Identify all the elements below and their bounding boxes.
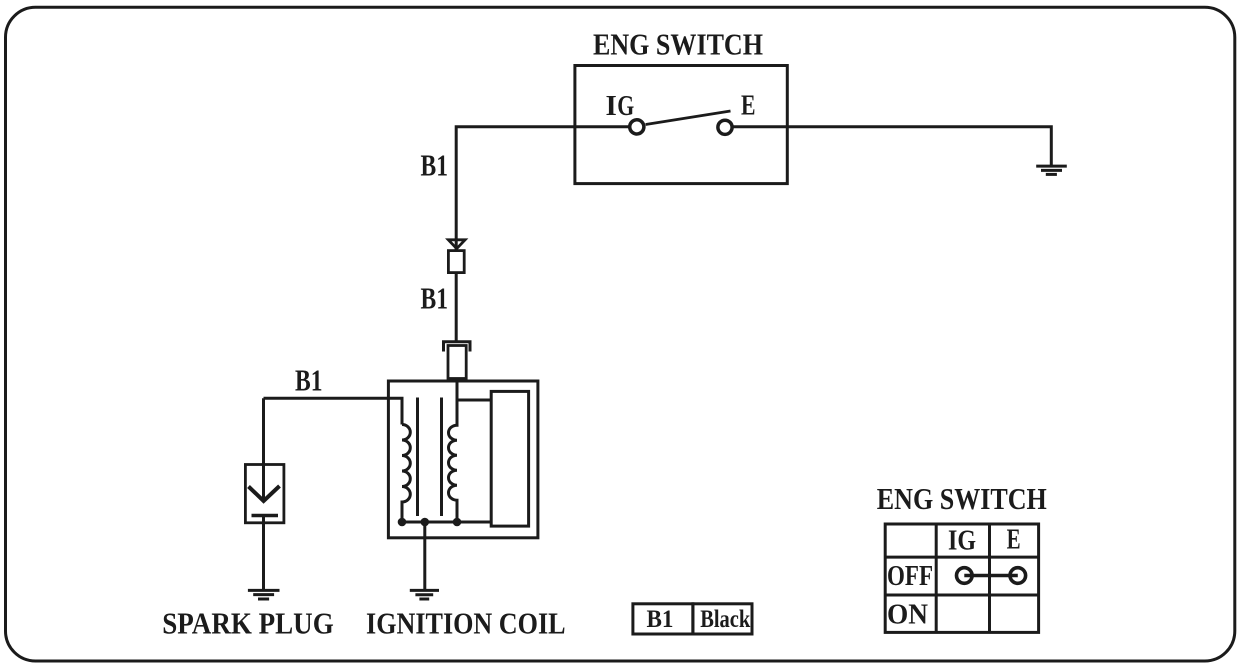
spark plug center electrode (262, 465, 265, 501)
connector (inline) (448, 251, 464, 273)
core lines (416, 398, 419, 517)
connector arrow (448, 240, 465, 249)
svg-text:I: I (606, 90, 617, 122)
svg-text:ON: ON (887, 599, 928, 631)
svg-text:ENG SWITCH: ENG SWITCH (877, 481, 1047, 516)
secondary tower block (491, 391, 528, 526)
wire spark plug line entering coil (264, 398, 403, 424)
svg-text:Black: Black (700, 604, 751, 633)
secondary winding (449, 400, 458, 522)
svg-text:IGNITION COIL: IGNITION COIL (366, 606, 566, 641)
svg-text:B1: B1 (421, 281, 449, 316)
svg-text:ENG SWITCH: ENG SWITCH (593, 27, 763, 62)
junction dot (ground) (421, 518, 430, 527)
wire from E contact to right corner, down to ground (734, 127, 1052, 165)
coil terminal connector (448, 346, 466, 379)
ground (ignition coil) (410, 590, 439, 599)
svg-text:G: G (617, 90, 634, 122)
table OFF-row contact link (964, 574, 1018, 577)
ground (right) (1036, 166, 1067, 174)
coil terminal bracket (444, 342, 471, 352)
wire coil common bottom (402, 521, 491, 524)
svg-text:OFF: OFF (887, 560, 933, 592)
spark plug gap chevron (249, 486, 280, 501)
wire spark plug to ground (262, 516, 265, 590)
spark plug body (245, 465, 284, 523)
wire coil to ground (423, 522, 426, 589)
svg-text:B1: B1 (647, 604, 674, 633)
wire down to spark plug (262, 398, 265, 464)
legend box B1 cell (633, 604, 693, 634)
svg-text:B1: B1 (421, 148, 449, 183)
junction dot (primary) (398, 518, 407, 527)
wire through arrow (455, 239, 458, 253)
svg-text:B1: B1 (295, 363, 323, 398)
switch contact E (718, 120, 732, 134)
spark plug side electrode (252, 514, 279, 518)
wire connector to coil terminal (455, 273, 458, 341)
table contact circle IG (957, 568, 973, 584)
svg-text:IG: IG (948, 525, 976, 557)
switch blade (open) (646, 111, 731, 125)
table contact circle E (1010, 568, 1026, 584)
switch contact IG (630, 120, 644, 134)
ignition coil box (388, 381, 538, 538)
junction dot (secondary) (453, 518, 462, 527)
switch SW1 box (575, 66, 787, 184)
wire terminal into coil, to tower (457, 379, 491, 401)
wire B1 feed: from switch IG contact left to corner and down to arrow (456, 127, 629, 249)
primary winding (402, 425, 410, 523)
ENG SWITCH state table grid (885, 524, 1038, 632)
svg-text:E: E (1007, 524, 1021, 556)
svg-text:SPARK PLUG: SPARK PLUG (162, 606, 334, 641)
ground (spark plug) (248, 590, 280, 599)
svg-text:E: E (741, 90, 756, 122)
legend box Black cell (693, 604, 752, 634)
